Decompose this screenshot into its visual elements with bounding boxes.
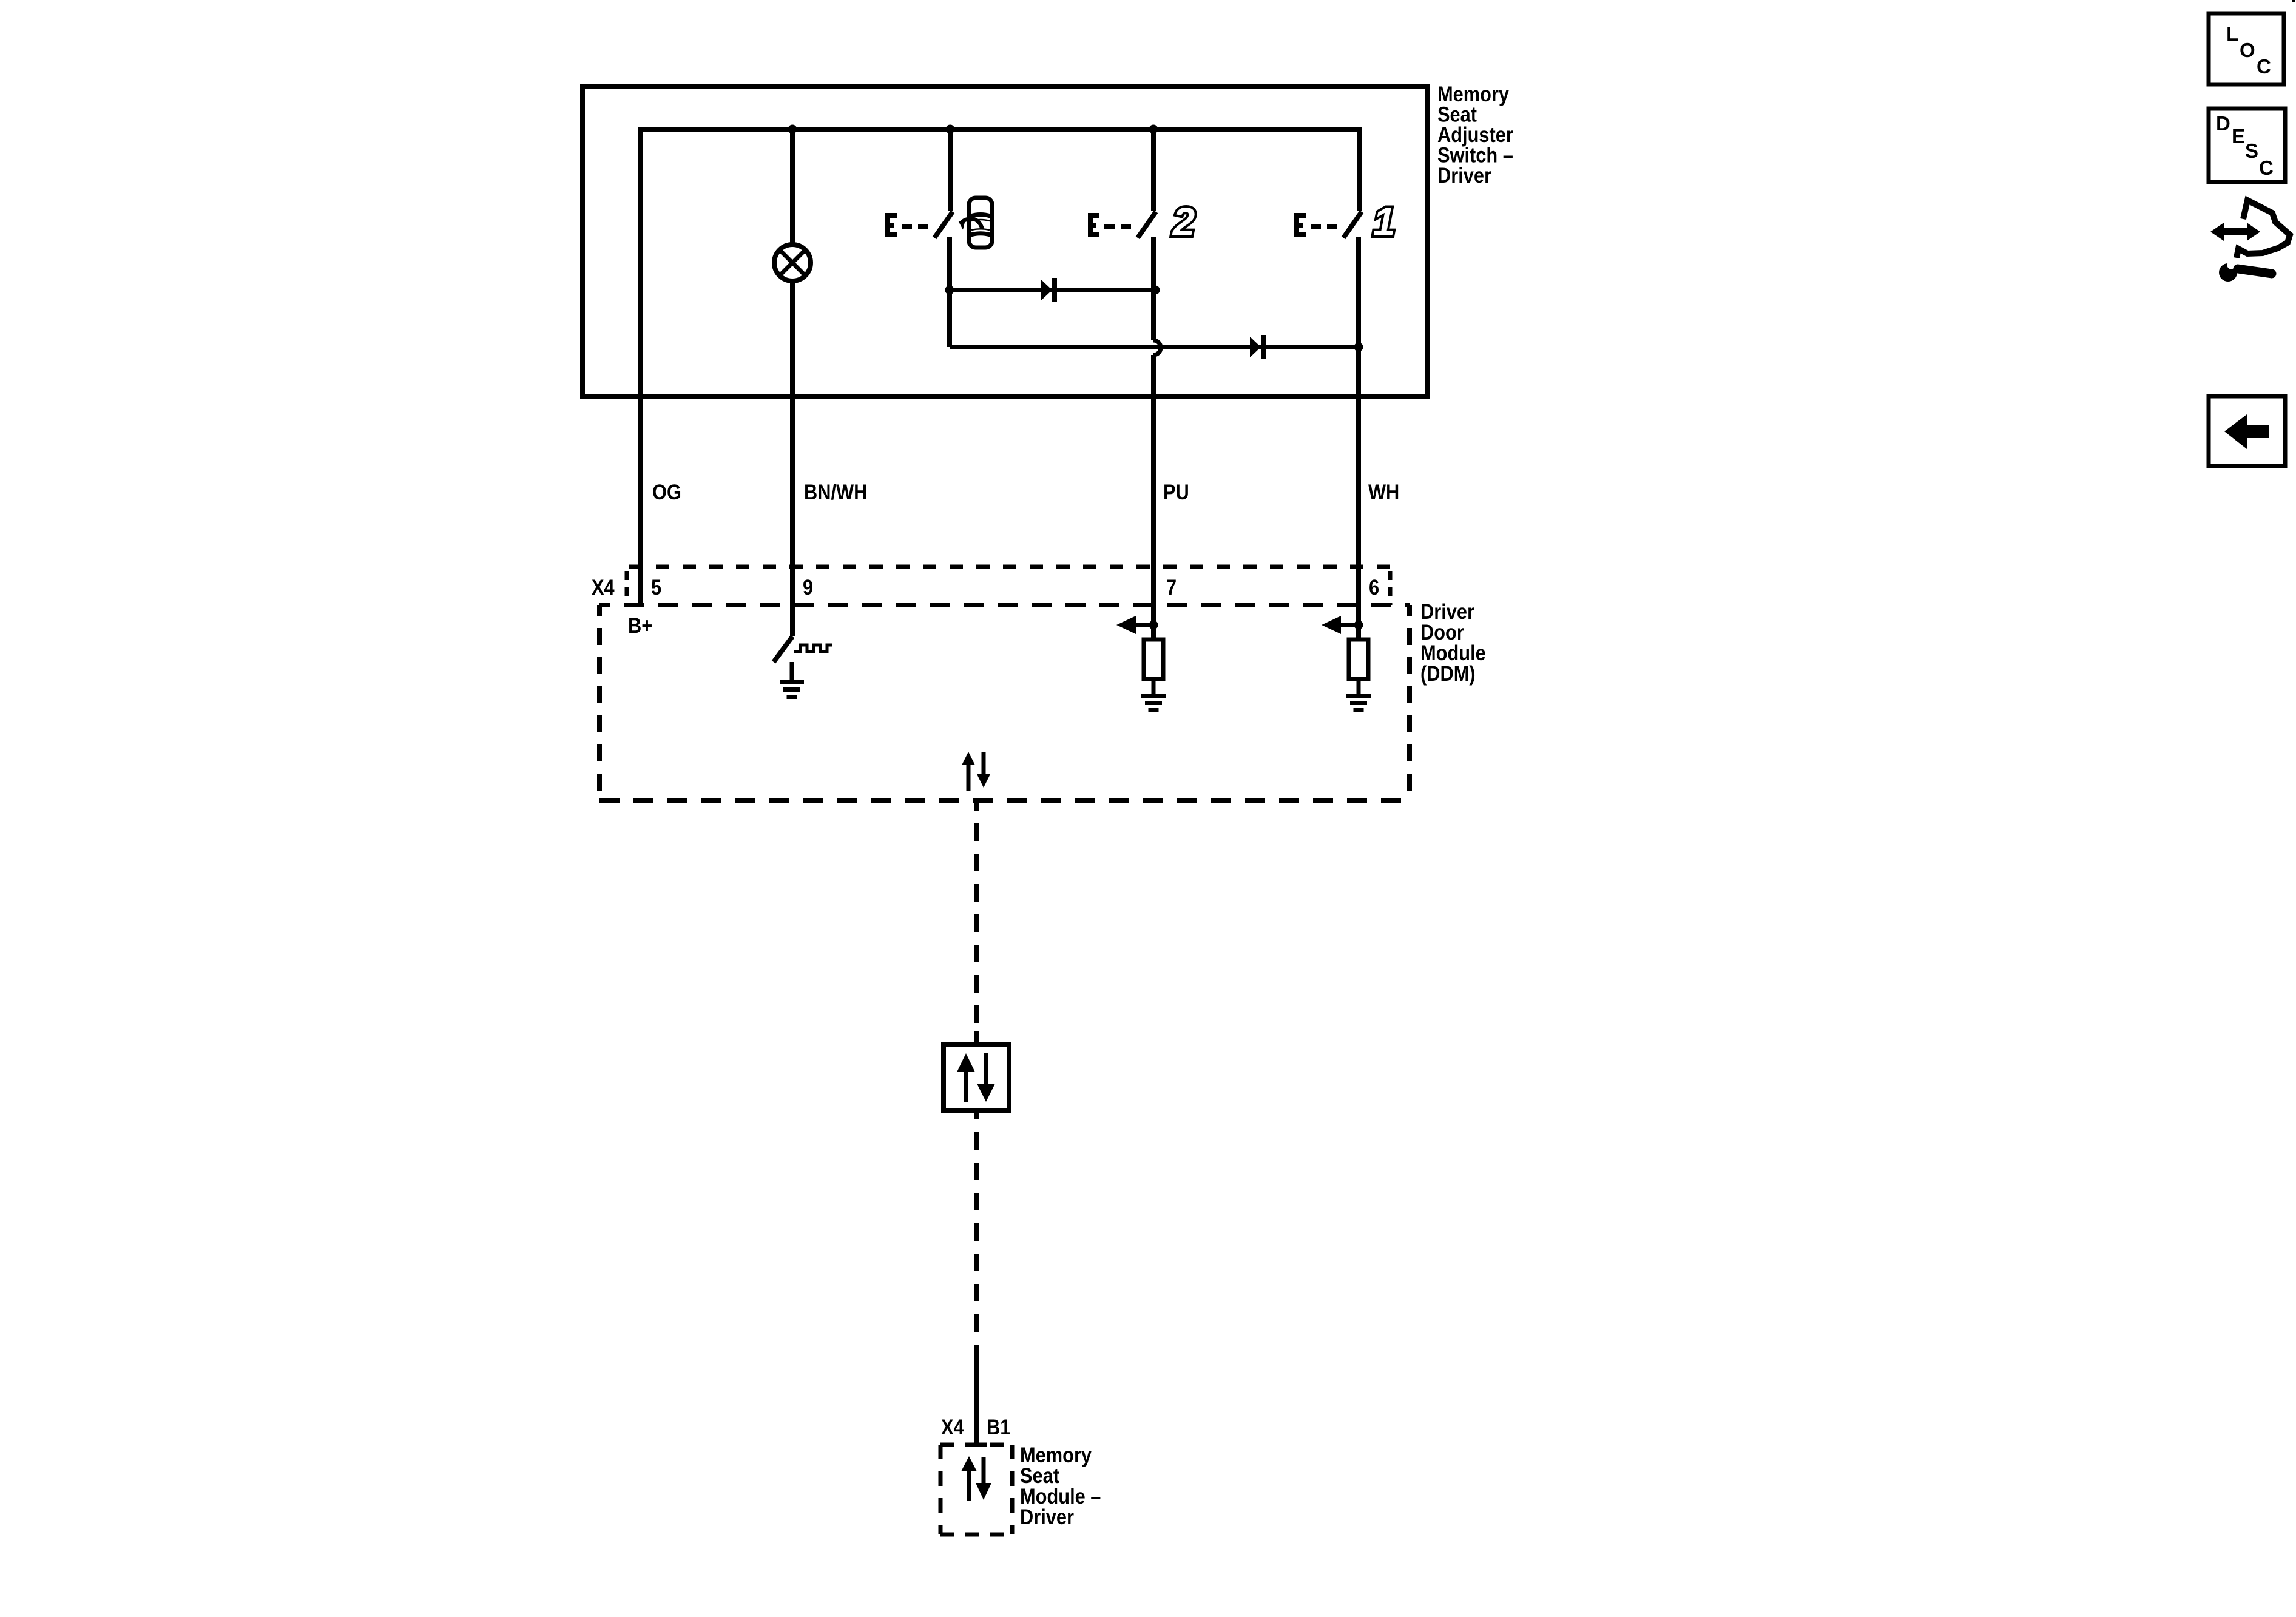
junction: link at switch 2 wire bbox=[1151, 286, 1160, 295]
wire: serial data link dashed upper bbox=[974, 800, 979, 1036]
junction: bus / lamp branch bbox=[788, 125, 797, 134]
Memory Seat Module - Driver dashed box bbox=[940, 1445, 1012, 1534]
junction: lower link at switch 1 wire bbox=[1354, 343, 1363, 352]
wire: serial data into memory seat module bbox=[974, 1345, 979, 1445]
serial data arrows at DDM bbox=[962, 752, 990, 791]
svg-text:MemorySeatModule –Driver: MemorySeatModule –Driver bbox=[1020, 1443, 1101, 1528]
svg-text:OG: OG bbox=[652, 480, 681, 504]
svg-text:MemorySeatAdjusterSwitch –Driv: MemorySeatAdjusterSwitch –Driver bbox=[1437, 82, 1513, 187]
lamp: switch illumination bbox=[774, 245, 811, 281]
svg-text:7: 7 bbox=[1166, 575, 1177, 599]
svg-text:DriverDoorModule(DDM): DriverDoorModule(DDM) bbox=[1420, 599, 1486, 685]
svg-text:X4: X4 bbox=[941, 1415, 964, 1439]
terminal E dashes for switch 2 bbox=[1088, 213, 1131, 237]
icon: back arrow button bbox=[2209, 396, 2285, 466]
wire: resistor 6 to ground bbox=[1357, 679, 1361, 695]
connector tick at module entry bbox=[968, 1443, 987, 1447]
icon: LOC button bbox=[2209, 13, 2284, 84]
junction: bus / set switch bbox=[946, 125, 955, 134]
svg-text:O: O bbox=[2240, 39, 2255, 61]
svg-text:C: C bbox=[2257, 55, 2271, 78]
resistor: pin 7 termination bbox=[1144, 640, 1163, 679]
wire: set output down to lower link bbox=[947, 290, 952, 347]
wire: lower memory link bbox=[950, 345, 1359, 349]
ground: resistor 6 bbox=[1346, 694, 1371, 712]
wire: resistor 7 to ground bbox=[1152, 679, 1156, 695]
ground: resistor 7 bbox=[1141, 694, 1166, 712]
switch: memory set bbox=[934, 129, 953, 290]
ground: lamp dimming return bbox=[780, 662, 804, 699]
svg-text:E: E bbox=[2232, 125, 2245, 147]
svg-text:9: 9 bbox=[803, 575, 813, 599]
signal arrow: pin 7 input bbox=[1116, 616, 1153, 634]
svg-text:B1: B1 bbox=[987, 1415, 1010, 1439]
switch: lamp dimming control with PWM symbol bbox=[774, 636, 832, 662]
junction: bus / switch 2 bbox=[1149, 125, 1158, 134]
terminal E dashes for switch 1 bbox=[1294, 213, 1337, 237]
switch 2: memory position 2 bbox=[1138, 129, 1156, 340]
svg-text:BN/WH: BN/WH bbox=[804, 480, 867, 504]
svg-text:D: D bbox=[2216, 112, 2230, 135]
wire: lamp branch (BN/WH) bbox=[790, 129, 795, 636]
diode D2 bbox=[1250, 335, 1266, 359]
icon: schematic navigation arrows and wrench bbox=[2210, 200, 2290, 282]
junction: pin 7 resistor node bbox=[1149, 621, 1158, 630]
junction: pin 6 resistor node bbox=[1354, 621, 1363, 630]
wire: PU to DDM pin 7 bbox=[1151, 355, 1156, 640]
wire: switch feed bus bbox=[641, 127, 1359, 132]
svg-text:5: 5 bbox=[651, 575, 661, 599]
junction: set switch output bbox=[945, 286, 954, 295]
svg-text:WH: WH bbox=[1368, 480, 1399, 504]
svg-text:X4: X4 bbox=[592, 575, 615, 599]
icon: car set symbol bbox=[959, 198, 993, 248]
terminal E dashes for set switch bbox=[885, 213, 928, 237]
diode D1 bbox=[1041, 278, 1057, 302]
wire: set switch output link bbox=[950, 288, 1155, 292]
svg-text:S: S bbox=[2245, 140, 2258, 162]
icon: DESC button bbox=[2209, 109, 2285, 182]
wire hop: PU wire over lower link bbox=[1153, 340, 1161, 355]
signal arrow: pin 6 input bbox=[1322, 616, 1359, 634]
wire: WH to DDM pin 6 bbox=[1356, 347, 1361, 640]
svg-text:L: L bbox=[2226, 22, 2238, 45]
svg-text:PU: PU bbox=[1163, 480, 1189, 504]
inline serial data symbol (boxed arrows) bbox=[944, 1031, 1009, 1119]
stray scan mark top right bbox=[2292, 0, 2295, 2]
connector X4 dotted band bbox=[627, 567, 1390, 605]
svg-text:6: 6 bbox=[1369, 575, 1379, 599]
svg-text:2: 2 bbox=[1172, 199, 1195, 244]
Memory Seat Adjuster Switch - Driver box bbox=[582, 86, 1427, 397]
wire: serial data link dashed lower bbox=[974, 1119, 979, 1345]
serial data arrows in memory seat module bbox=[961, 1456, 991, 1501]
Driver Door Module (DDM) dashed box bbox=[599, 605, 1410, 800]
svg-text:1: 1 bbox=[1373, 199, 1396, 244]
svg-text:B+: B+ bbox=[628, 613, 652, 637]
switch 1: memory position 1 bbox=[1343, 127, 1362, 347]
resistor: pin 6 termination bbox=[1349, 640, 1368, 679]
svg-text:C: C bbox=[2259, 157, 2274, 179]
wire: OG battery feed to pin 5 bbox=[638, 127, 643, 605]
